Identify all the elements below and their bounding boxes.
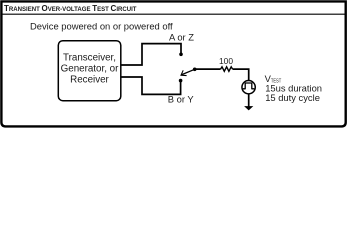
svg-text:Device powered on or powered o: Device powered on or powered off [30,21,173,32]
svg-text:A or Z: A or Z [169,32,194,43]
switch arm arrowhead [181,70,187,75]
svg-text:Transceiver,: Transceiver, [63,53,116,64]
wire: resistor to corner and down to source [233,69,249,80]
device box [58,41,121,101]
svg-text:100: 100 [219,56,233,66]
outer frame [1,1,345,126]
svg-text:Receiver: Receiver [70,74,109,85]
svg-text:B or Y: B or Y [168,94,195,105]
pulse waveform symbol [243,83,255,89]
ground arrow [244,106,253,110]
wire: top stub from box [121,44,181,65]
resistor R (zigzag) [221,67,233,72]
switch arm [181,69,195,75]
node: contact B dot [179,79,183,83]
svg-text:Generator, or: Generator, or [61,64,119,75]
node: contact A dot [179,53,183,57]
pulse source circle U1 [242,81,255,94]
switch pole dot [193,68,197,72]
wire: bottom stub from box [121,77,181,94]
title separator line [1,13,346,15]
wire: below source [248,94,250,107]
wire: pole to resistor [195,68,221,70]
svg-text:15 duty cycle: 15 duty cycle [265,92,320,103]
